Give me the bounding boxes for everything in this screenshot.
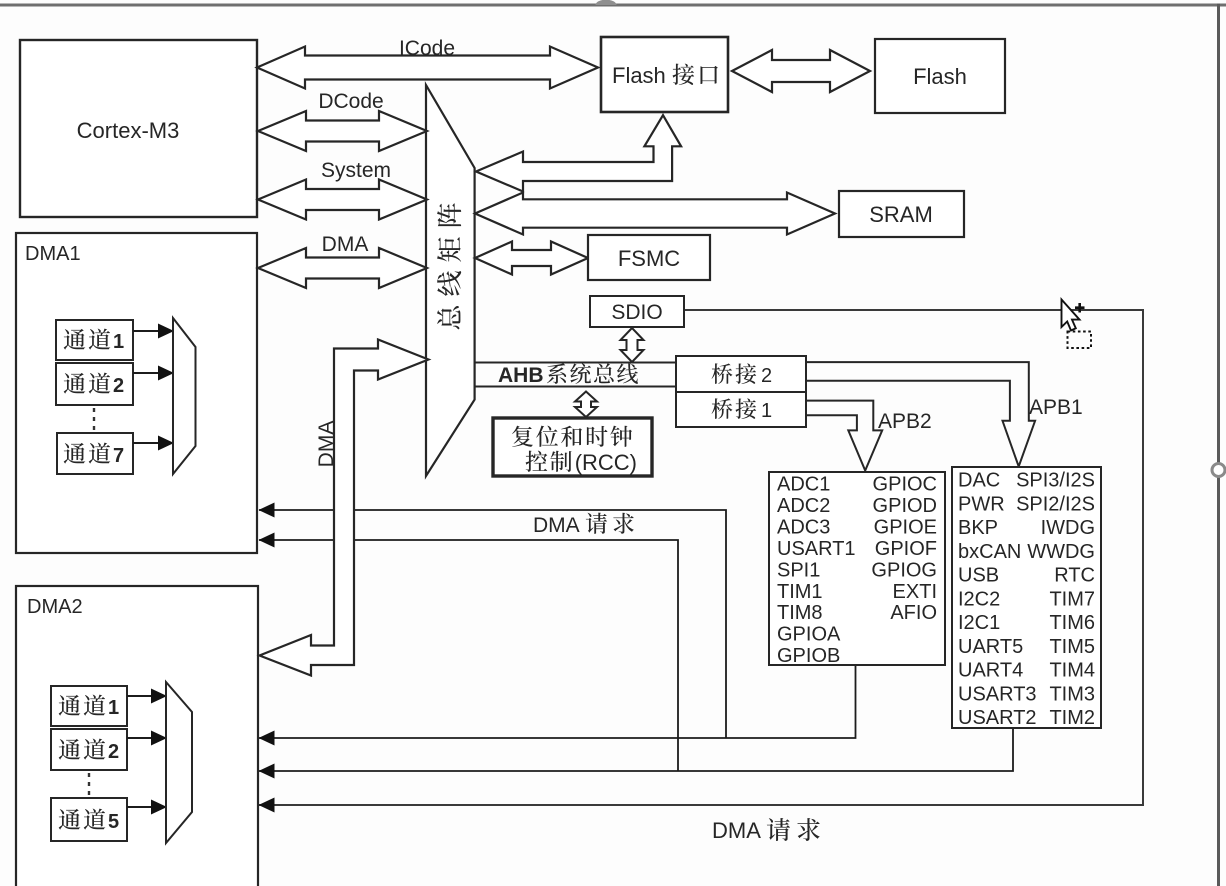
svg-text:(RCC): (RCC) bbox=[575, 450, 637, 475]
svg-text:DMA: DMA bbox=[533, 514, 580, 537]
box Flash 接口 bbox=[601, 37, 728, 112]
svg-text:SPI1: SPI1 bbox=[777, 559, 820, 581]
svg-text:1: 1 bbox=[761, 400, 772, 422]
svg-text:1: 1 bbox=[108, 697, 119, 719]
wire SDIO to right bus (DMA request 3 feed) bbox=[259, 310, 1143, 805]
box APB1 peripherals list bbox=[952, 467, 1101, 728]
flash interface channel arrow (matrix to Flash 接口) bbox=[476, 115, 681, 191]
svg-text:USART1: USART1 bbox=[777, 538, 856, 560]
svg-text:ADC1: ADC1 bbox=[777, 474, 830, 496]
DMA1 arbiter mux shape bbox=[173, 318, 196, 474]
svg-text:SPI3/I2S: SPI3/I2S bbox=[1016, 470, 1095, 492]
arrowhead DMA2 request 2 bbox=[259, 764, 275, 779]
box DMA2 channel 5 (通道5) bbox=[51, 798, 127, 841]
svg-text:Flash: Flash bbox=[612, 63, 666, 88]
svg-text:GPIOD: GPIOD bbox=[873, 495, 937, 517]
svg-text:DMA: DMA bbox=[315, 421, 338, 468]
SRAM double arrow bbox=[475, 193, 835, 235]
box bridge1 桥接1 bbox=[676, 392, 806, 427]
svg-text:SDIO: SDIO bbox=[611, 301, 662, 324]
box DMA1 channel 2 (通道2) bbox=[56, 363, 133, 405]
svg-text:USART2: USART2 bbox=[958, 707, 1037, 729]
arrowhead channel7 bbox=[158, 436, 174, 451]
box bridge2 桥接2 bbox=[676, 356, 806, 392]
svg-text:EXTI: EXTI bbox=[893, 581, 937, 603]
svg-text:TIM4: TIM4 bbox=[1049, 660, 1095, 682]
svg-text:GPIOC: GPIOC bbox=[873, 474, 937, 496]
arrowhead DMA1 request 2 bbox=[259, 533, 275, 548]
dotted line DMA1 channels ellipsis bbox=[93, 408, 95, 431]
box FSMC bbox=[588, 235, 710, 280]
player top bar line bbox=[0, 4, 1226, 7]
wire junction riser to DMA1 request 1 bbox=[259, 510, 726, 738]
AHB system bus bar bbox=[475, 363, 677, 387]
svg-text:RTC: RTC bbox=[1054, 565, 1095, 587]
svg-text:7: 7 bbox=[113, 445, 124, 467]
svg-text:DMA: DMA bbox=[322, 233, 369, 256]
DMA2 arbiter mux shape bbox=[166, 682, 192, 843]
svg-text:USB: USB bbox=[958, 565, 999, 587]
svg-text:GPIOA: GPIOA bbox=[777, 624, 841, 646]
arrowhead DMA2 request 3 bbox=[259, 798, 275, 813]
svg-text:USART3: USART3 bbox=[958, 683, 1037, 705]
wire channel2 to mux bbox=[133, 372, 158, 374]
box Cortex-M3 bbox=[20, 40, 257, 217]
svg-text:TIM8: TIM8 bbox=[777, 602, 823, 624]
svg-text:IWDG: IWDG bbox=[1041, 517, 1095, 539]
bus matrix trapezoid (总线矩阵) bbox=[426, 85, 475, 476]
svg-text:2: 2 bbox=[113, 375, 124, 397]
svg-text:2: 2 bbox=[108, 741, 119, 763]
svg-text:BKP: BKP bbox=[958, 517, 998, 539]
box DMA1 channel 1 (通道1) bbox=[56, 320, 133, 360]
svg-text:UART4: UART4 bbox=[958, 660, 1023, 682]
svg-text:AFIO: AFIO bbox=[890, 602, 937, 624]
svg-text:TIM2: TIM2 bbox=[1049, 707, 1095, 729]
wire DMA2 channel1 to mux bbox=[127, 695, 151, 697]
svg-text:GPIOE: GPIOE bbox=[874, 516, 937, 538]
svg-text:ICode: ICode bbox=[399, 37, 455, 60]
box Flash bbox=[875, 39, 1005, 113]
svg-text:DAC: DAC bbox=[958, 470, 1000, 492]
svg-text:PWR: PWR bbox=[958, 493, 1005, 515]
box APB2 peripherals list bbox=[769, 472, 945, 665]
arrowhead channel2 bbox=[158, 366, 174, 381]
svg-text:SRAM: SRAM bbox=[869, 202, 933, 227]
arrowhead DMA2 ch1 bbox=[151, 689, 167, 704]
svg-text:SPI2/I2S: SPI2/I2S bbox=[1016, 493, 1095, 515]
thick DMA bus path (bus matrix to DMA2) bbox=[260, 340, 429, 676]
svg-text:FSMC: FSMC bbox=[618, 246, 680, 271]
bus matrix vertical label 总线矩阵 bbox=[437, 203, 461, 329]
vertical label DMA on thick path bbox=[315, 421, 338, 468]
DCode bus double arrow bbox=[258, 111, 427, 151]
wire channel7 to mux bbox=[133, 442, 158, 444]
wire DMA2 channel2 to mux bbox=[127, 737, 151, 739]
svg-text:GPIOF: GPIOF bbox=[875, 538, 937, 560]
svg-text:GPIOG: GPIOG bbox=[871, 559, 937, 581]
player scrubber knob top bbox=[596, 0, 617, 5]
box DMA2 channel 2 (通道2) bbox=[51, 729, 127, 770]
box SRAM bbox=[839, 191, 964, 237]
wire junction riser to DMA1 request 2 bbox=[259, 540, 678, 771]
svg-text:TIM7: TIM7 bbox=[1049, 588, 1095, 610]
box DMA2 channel 1 (通道1) bbox=[51, 686, 127, 726]
svg-text:System: System bbox=[321, 159, 391, 182]
svg-text:TIM3: TIM3 bbox=[1049, 683, 1095, 705]
svg-text:ADC2: ADC2 bbox=[777, 495, 830, 517]
ICode bus double arrow bbox=[257, 47, 598, 89]
svg-text:APB1: APB1 bbox=[1029, 396, 1083, 419]
svg-text:DMA1: DMA1 bbox=[25, 243, 81, 265]
mouse cursor (copy drag) bbox=[1062, 300, 1092, 349]
APB2 bent hollow arrow (bridge1 to APB2 peripherals) bbox=[806, 401, 882, 471]
svg-text:UART5: UART5 bbox=[958, 636, 1023, 658]
svg-text:Cortex-M3: Cortex-M3 bbox=[77, 118, 180, 143]
box DMA1 bbox=[16, 233, 257, 553]
wire APB2 peripherals to DMA1 request 1 bbox=[259, 665, 856, 738]
svg-text:I2C2: I2C2 bbox=[958, 588, 1000, 610]
svg-text:TIM5: TIM5 bbox=[1049, 636, 1095, 658]
dotted line DMA2 channels ellipsis bbox=[88, 773, 90, 796]
svg-text:GPIOB: GPIOB bbox=[777, 645, 840, 667]
arrowhead channel1 bbox=[158, 324, 174, 339]
right window border bbox=[1217, 4, 1220, 886]
svg-text:DCode: DCode bbox=[318, 90, 383, 113]
APB1 bent hollow arrow (bridge2 to APB1 peripherals) bbox=[806, 362, 1035, 466]
AHB to RCC vertical double arrow bbox=[575, 392, 597, 418]
svg-text:ADC3: ADC3 bbox=[777, 516, 830, 538]
svg-text:WWDG: WWDG bbox=[1027, 541, 1095, 563]
SDIO to AHB vertical double arrow bbox=[621, 328, 644, 362]
svg-text:5: 5 bbox=[108, 811, 119, 833]
svg-text:TIM1: TIM1 bbox=[777, 581, 823, 603]
arrowhead DMA2 ch2 bbox=[151, 731, 167, 746]
box DMA1 channel 7 (通道7) bbox=[57, 433, 133, 474]
svg-text:I2C1: I2C1 bbox=[958, 612, 1000, 634]
box SDIO bbox=[590, 296, 684, 327]
FSMC double arrow bbox=[475, 242, 588, 275]
svg-text:DMA: DMA bbox=[712, 818, 761, 843]
box RCC 复位和时钟控制 bbox=[493, 418, 652, 476]
svg-text:TIM6: TIM6 bbox=[1049, 612, 1095, 634]
arrowhead DMA1 request 1 bbox=[259, 503, 275, 518]
Flash interface <-> Flash double arrow bbox=[732, 50, 870, 92]
right border circle knob bbox=[1212, 464, 1225, 477]
DMA bus double arrow (DMA1) bbox=[258, 248, 427, 288]
svg-text:APB2: APB2 bbox=[878, 410, 932, 433]
wire DMA2 channel5 to mux bbox=[127, 806, 151, 808]
arrowhead DMA2 request 1 bbox=[259, 731, 275, 746]
System bus double arrow bbox=[258, 180, 427, 220]
svg-text:2: 2 bbox=[761, 365, 772, 387]
svg-text:DMA2: DMA2 bbox=[27, 596, 83, 618]
svg-text:1: 1 bbox=[113, 331, 124, 353]
arrowhead DMA2 ch5 bbox=[151, 800, 167, 815]
svg-text:bxCAN: bxCAN bbox=[958, 541, 1021, 563]
svg-text:AHB: AHB bbox=[498, 364, 544, 387]
wire APB1 peripherals to DMA2 request 2 bbox=[259, 728, 1013, 771]
svg-text:Flash: Flash bbox=[913, 64, 967, 89]
wire channel1 to mux bbox=[133, 330, 158, 332]
box DMA2 bbox=[16, 586, 258, 886]
